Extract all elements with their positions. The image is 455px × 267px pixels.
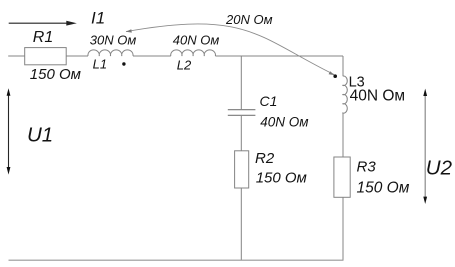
- svg-text:40N Ом: 40N Ом: [173, 32, 220, 47]
- mutual coupling arrow M (20N): [126, 24, 335, 75]
- wire L2 to right corner: [215, 55, 343, 57]
- wire R3 to bottom: [342, 197, 344, 260]
- resistor R2: [235, 151, 249, 188]
- svg-text:L1: L1: [93, 57, 107, 72]
- wire right branch top: [342, 56, 344, 76]
- svg-text:U1: U1: [27, 123, 53, 146]
- resistor R3: [334, 157, 350, 197]
- svg-text:20N Ом: 20N Ом: [225, 12, 273, 27]
- voltage arrow U2: [423, 89, 427, 204]
- svg-text:40N Ом: 40N Ом: [260, 114, 308, 129]
- wire R1 to L1: [66, 55, 88, 57]
- svg-text:150 Ом: 150 Ом: [357, 180, 410, 197]
- current arrow I1: [9, 21, 77, 26]
- inductor L2: [171, 50, 216, 56]
- svg-text:I1: I1: [91, 9, 105, 28]
- wire C1 to R2: [240, 116, 242, 151]
- svg-text:R1: R1: [33, 29, 53, 46]
- inductor L1: [88, 50, 133, 56]
- svg-text:R3: R3: [357, 159, 377, 176]
- wire L1 to L2: [133, 55, 171, 57]
- polarity dot (L3): [333, 74, 337, 78]
- voltage arrow U1: [7, 88, 11, 174]
- wire R2 to bottom: [240, 188, 242, 260]
- wire top-left: [8, 55, 25, 57]
- node wire middle branch top: [240, 56, 242, 109]
- svg-text:L2: L2: [177, 57, 192, 72]
- svg-text:C1: C1: [260, 93, 278, 109]
- svg-text:150 Ом: 150 Ом: [256, 169, 307, 186]
- wire L3 to R3: [342, 113, 344, 157]
- resistor R1: [25, 48, 66, 65]
- svg-text:150 Ом: 150 Ом: [30, 66, 81, 83]
- capacitor C1: [228, 110, 256, 116]
- svg-text:40N Ом: 40N Ом: [350, 87, 405, 104]
- svg-text:U2: U2: [426, 156, 453, 179]
- bottom wire: [9, 259, 344, 261]
- polarity dot (L1): [122, 62, 125, 65]
- svg-text:30N Ом: 30N Ом: [90, 32, 137, 47]
- svg-text:R2: R2: [255, 150, 275, 167]
- inductor L3: [342, 76, 347, 113]
